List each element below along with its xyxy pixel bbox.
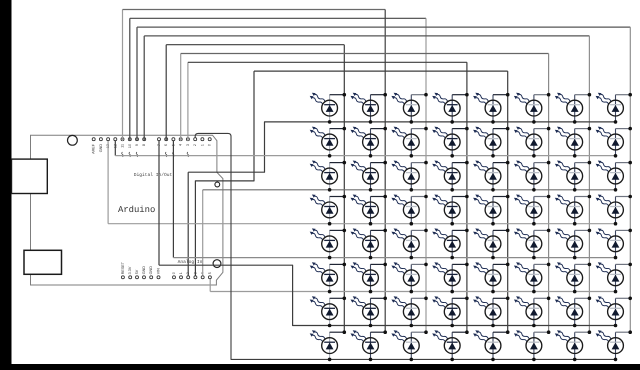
svg-text:6: 6 <box>164 144 168 146</box>
mounting hole top-left <box>68 135 78 145</box>
svg-text:10: 10 <box>128 144 132 148</box>
LED D53 (row 5, col 3) <box>391 228 427 259</box>
svg-text:0: 0 <box>208 144 212 146</box>
LED D25 (row 2, col 5) <box>473 127 509 158</box>
USB connector <box>12 159 48 193</box>
svg-text:5: 5 <box>208 272 212 274</box>
LED D32 (row 3, col 2) <box>351 161 388 192</box>
wire pin 8 to column 7 <box>144 36 589 332</box>
wire pin A3 to column 5 <box>195 71 507 332</box>
pin GND (digital header) <box>99 138 103 153</box>
wire pin 12 to row 2 <box>115 141 615 156</box>
svg-text:AREF: AREF <box>92 143 96 154</box>
label Digital In/Out <box>134 172 173 178</box>
LED D31 (row 3, col 1) <box>310 161 346 192</box>
svg-text:Arduino: Arduino <box>118 205 155 215</box>
mounting hole right-upper <box>215 182 220 187</box>
svg-text:RESET: RESET <box>121 261 125 274</box>
LED D27 (row 2, col 7) <box>555 127 591 158</box>
pin 13 (digital header) <box>106 138 110 148</box>
mounting hole right-lower <box>213 260 221 268</box>
pin GND (power/analog header) <box>149 266 153 279</box>
LED D66 (row 6, col 6) <box>514 262 550 293</box>
svg-text:1: 1 <box>179 272 183 274</box>
svg-text:1: 1 <box>200 144 204 146</box>
LED D47 (row 4, col 7) <box>555 195 591 226</box>
LED D62 (row 6, col 2) <box>351 262 388 293</box>
pin AREF (digital header) <box>92 138 96 154</box>
svg-text:VIN: VIN <box>157 268 161 274</box>
LED D85 (row 8, col 5) <box>473 330 509 361</box>
LED D61 (row 6, col 1) <box>310 262 346 293</box>
pin GND (power/analog header) <box>142 266 146 279</box>
LED D43 (row 4, col 3) <box>391 195 427 226</box>
pin 3 (digital header) <box>186 138 190 157</box>
wire pin 3 to column 4 <box>188 62 467 332</box>
LED D34 (row 3, col 4) <box>432 161 469 192</box>
svg-text:2: 2 <box>193 144 197 146</box>
wire pin 11 to column 2 <box>123 10 386 333</box>
LED D44 (row 4, col 4) <box>432 195 469 226</box>
LED D22 (row 2, col 2) <box>351 127 388 158</box>
wire pin A4 to row 3 <box>203 190 616 276</box>
LED D82 (row 8, col 2) <box>351 330 388 361</box>
pin 2 (digital header) <box>193 138 197 146</box>
pin 5 (digital header) <box>171 138 175 157</box>
label Analog In <box>178 259 203 265</box>
wire pin 2 to row 8 <box>195 133 615 359</box>
LED D71 (row 7, col 1) <box>310 296 346 327</box>
pin A5 (power/analog header) <box>208 272 212 279</box>
LED D15 (row 1, col 5) <box>473 93 509 124</box>
LED D41 (row 4, col 1) <box>310 195 346 226</box>
LED D84 (row 8, col 4) <box>432 330 469 361</box>
wire pin 5 to row 5 <box>173 141 615 258</box>
LED D18 (row 1, col 8) <box>596 93 632 124</box>
LED D73 (row 7, col 3) <box>391 296 427 327</box>
pin 10 (digital header) <box>128 138 132 157</box>
pin 12 (digital header) <box>113 138 117 148</box>
svg-text:8: 8 <box>142 144 146 146</box>
LED D72 (row 7, col 2) <box>351 296 388 327</box>
LED D54 (row 5, col 4) <box>432 228 469 259</box>
wire pin 4 to column 6 <box>181 54 549 333</box>
LED D67 (row 6, col 7) <box>555 262 591 293</box>
LED D68 (row 6, col 8) <box>596 262 632 293</box>
LED D63 (row 6, col 3) <box>391 262 427 293</box>
pin 1 (digital header) <box>200 138 204 146</box>
LED D55 (row 5, col 5) <box>473 228 509 259</box>
svg-text:GND: GND <box>99 144 103 153</box>
pin RESET (power/analog header) <box>121 261 125 279</box>
wire pin 10 to column 3 <box>130 18 426 332</box>
LED D24 (row 2, col 4) <box>432 127 469 158</box>
svg-text:0: 0 <box>172 272 176 274</box>
pin A1 (power/analog header) <box>179 272 183 279</box>
LED D64 (row 6, col 4) <box>432 262 469 293</box>
pin VIN (power/analog header) <box>157 268 161 279</box>
LED D58 (row 5, col 8) <box>596 228 632 259</box>
LED D51 (row 5, col 1) <box>310 228 346 259</box>
pin A3 (power/analog header) <box>193 272 197 279</box>
pin 7 (digital header) <box>157 138 161 146</box>
svg-text:GND: GND <box>142 266 146 275</box>
pin 5V (power/analog header) <box>135 269 139 279</box>
wire pin A5 to row 6 <box>210 279 615 292</box>
pin 6 (digital header) <box>164 138 168 157</box>
LED D81 (row 8, col 1) <box>310 330 346 361</box>
svg-text:Digital In/Out: Digital In/Out <box>134 172 173 178</box>
LED D65 (row 6, col 5) <box>473 262 509 293</box>
wire pin 9 to column 8 <box>137 27 630 332</box>
LED D23 (row 2, col 3) <box>391 127 427 158</box>
LED D86 (row 8, col 6) <box>514 330 550 361</box>
Arduino board U1 outline <box>31 135 223 285</box>
pin A0 (power/analog header) <box>172 272 176 279</box>
svg-text:4: 4 <box>179 144 183 146</box>
LED D56 (row 5, col 6) <box>514 228 550 259</box>
LED D77 (row 7, col 7) <box>555 296 591 327</box>
LED D26 (row 2, col 6) <box>514 127 550 158</box>
label Arduino <box>118 205 155 215</box>
LED D74 (row 7, col 4) <box>432 296 469 327</box>
LED D42 (row 4, col 2) <box>351 195 388 226</box>
LED D37 (row 3, col 7) <box>555 161 591 192</box>
LED D57 (row 5, col 7) <box>555 228 591 259</box>
LED D52 (row 5, col 2) <box>351 228 388 259</box>
LED D75 (row 7, col 5) <box>473 296 509 327</box>
LED D11 (row 1, col 1) <box>310 93 346 124</box>
LED D48 (row 4, col 8) <box>596 195 632 226</box>
LED D36 (row 3, col 6) <box>514 161 550 192</box>
LED D88 (row 8, col 8) <box>596 330 632 361</box>
pin A2 (power/analog header) <box>186 272 190 279</box>
LED D13 (row 1, col 3) <box>391 93 427 124</box>
wire pin 13 to row 4 <box>108 141 615 224</box>
LED D16 (row 1, col 6) <box>514 93 550 124</box>
wire pin 7 to row 7 <box>159 141 616 326</box>
svg-text:Analog In: Analog In <box>178 259 203 265</box>
svg-text:3.3V: 3.3V <box>128 266 132 274</box>
LED D14 (row 1, col 4) <box>432 93 469 124</box>
wire pin 6 to column 1 <box>166 45 344 333</box>
svg-text:11: 11 <box>121 144 125 148</box>
LED D38 (row 3, col 8) <box>596 161 632 192</box>
LED D78 (row 7, col 8) <box>596 296 632 327</box>
svg-text:9: 9 <box>135 144 139 146</box>
LED D17 (row 1, col 7) <box>555 93 591 124</box>
power jack <box>24 250 62 274</box>
LED D45 (row 4, col 5) <box>473 195 509 226</box>
LED D46 (row 4, col 6) <box>514 195 550 226</box>
pin 3.3V (power/analog header) <box>128 266 132 279</box>
wire pin A2 to row 1 <box>188 122 615 276</box>
LED D35 (row 3, col 5) <box>473 161 509 192</box>
pin 9 (digital header) <box>135 138 139 157</box>
svg-text:5V: 5V <box>135 269 139 274</box>
LED D21 (row 2, col 1) <box>310 127 346 158</box>
LED D12 (row 1, col 2) <box>351 93 388 124</box>
svg-text:GND: GND <box>149 266 153 275</box>
pin 4 (digital header) <box>179 138 183 146</box>
pin 11 (digital header) <box>121 138 125 157</box>
LED D87 (row 8, col 7) <box>555 330 591 361</box>
LED D28 (row 2, col 8) <box>596 127 632 158</box>
svg-text:3: 3 <box>186 144 190 146</box>
pin 0 (digital header) <box>208 138 212 146</box>
LED D83 (row 8, col 3) <box>391 330 427 361</box>
pin A4 (power/analog header) <box>201 272 205 279</box>
LED D76 (row 7, col 6) <box>514 296 550 327</box>
pin 8 (digital header) <box>142 138 146 146</box>
LED D33 (row 3, col 3) <box>391 161 427 192</box>
